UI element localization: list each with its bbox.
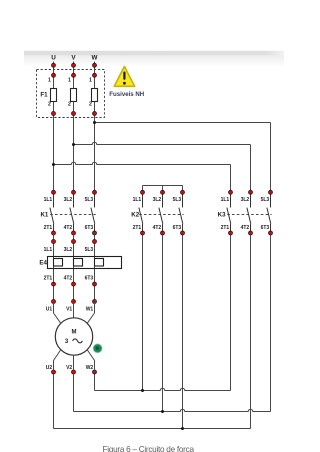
svg-text:1: 1	[48, 77, 51, 83]
svg-text:2T1: 2T1	[44, 275, 53, 281]
svg-text:M: M	[72, 330, 77, 336]
svg-text:2: 2	[48, 102, 51, 108]
svg-text:1L1: 1L1	[44, 247, 53, 253]
svg-text:2T1: 2T1	[44, 225, 53, 231]
svg-text:U1: U1	[46, 306, 53, 312]
svg-text:K3: K3	[218, 212, 226, 219]
svg-text:5L3: 5L3	[261, 197, 270, 203]
svg-text:Figura 6 – Circuito de força: Figura 6 – Circuito de força	[103, 445, 195, 452]
svg-text:F1: F1	[40, 92, 48, 99]
svg-text:3L2: 3L2	[241, 197, 250, 203]
svg-text:5L3: 5L3	[173, 197, 182, 203]
svg-text:K1: K1	[40, 212, 48, 219]
svg-text:W: W	[92, 55, 98, 62]
svg-text:2T1: 2T1	[133, 225, 142, 231]
svg-text:3L2: 3L2	[64, 247, 73, 253]
svg-text:U2: U2	[46, 365, 53, 371]
svg-text:4T2: 4T2	[153, 225, 162, 231]
svg-text:Fusiveis NH: Fusiveis NH	[109, 91, 144, 98]
svg-text:5L3: 5L3	[85, 247, 94, 253]
svg-text:6T3: 6T3	[85, 225, 94, 231]
svg-text:V1: V1	[66, 306, 72, 312]
svg-text:3L2: 3L2	[64, 197, 73, 203]
svg-text:2: 2	[89, 102, 92, 108]
svg-text:6T3: 6T3	[173, 225, 182, 231]
svg-text:6T3: 6T3	[261, 225, 270, 231]
svg-text:4T2: 4T2	[64, 225, 73, 231]
svg-text:5L3: 5L3	[85, 197, 94, 203]
svg-text:W2: W2	[86, 365, 94, 371]
svg-text:U: U	[51, 55, 56, 62]
svg-text:3L2: 3L2	[153, 197, 162, 203]
svg-text:1: 1	[68, 77, 71, 83]
svg-text:V2: V2	[66, 365, 72, 371]
svg-text:4T2: 4T2	[241, 225, 250, 231]
svg-text:1L1: 1L1	[221, 197, 230, 203]
svg-text:W1: W1	[86, 306, 94, 312]
svg-text:1L1: 1L1	[44, 197, 53, 203]
svg-text:K2: K2	[131, 212, 139, 219]
svg-text:E4: E4	[39, 259, 47, 266]
svg-text:4T2: 4T2	[64, 275, 73, 281]
svg-text:2T1: 2T1	[221, 225, 230, 231]
svg-text:2: 2	[68, 102, 71, 108]
svg-text:1: 1	[89, 77, 92, 83]
svg-text:1L1: 1L1	[133, 197, 142, 203]
svg-text:6T3: 6T3	[85, 275, 94, 281]
